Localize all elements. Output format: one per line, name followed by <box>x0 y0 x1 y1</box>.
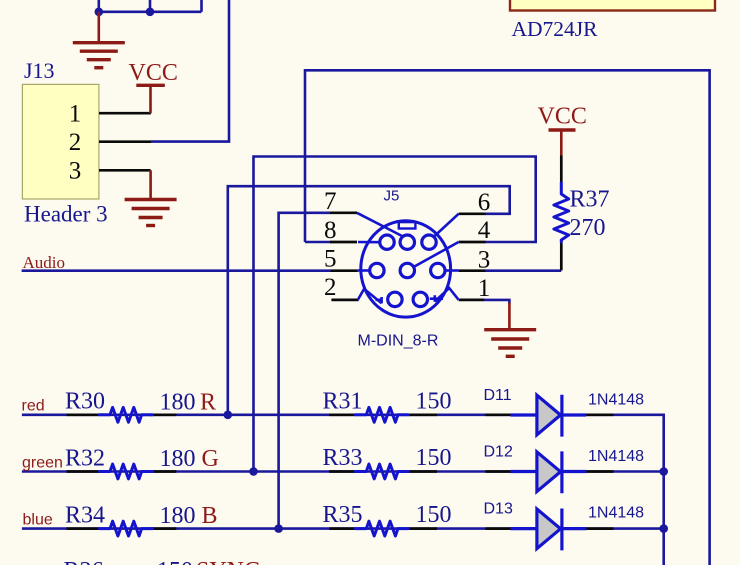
svg-text:M-DIN_8-R: M-DIN_8-R <box>358 333 439 350</box>
svg-text:R30: R30 <box>65 389 105 415</box>
svg-text:G: G <box>202 446 219 472</box>
svg-text:1N4148: 1N4148 <box>588 505 644 522</box>
svg-text:SYNC: SYNC <box>196 558 260 565</box>
svg-text:6: 6 <box>478 189 491 216</box>
svg-text:R37: R37 <box>570 187 610 213</box>
svg-text:Audio: Audio <box>23 253 66 272</box>
svg-text:3: 3 <box>478 246 491 273</box>
svg-text:180: 180 <box>160 446 196 472</box>
svg-text:R34: R34 <box>65 503 105 529</box>
svg-text:2: 2 <box>324 274 337 301</box>
svg-text:Header 3: Header 3 <box>24 202 108 227</box>
svg-text:blue: blue <box>23 511 53 528</box>
svg-text:D13: D13 <box>484 500 513 517</box>
svg-text:R: R <box>200 389 216 415</box>
svg-text:VCC: VCC <box>538 104 587 130</box>
svg-text:AD724JR: AD724JR <box>512 17 599 41</box>
svg-text:1N4148: 1N4148 <box>588 448 644 465</box>
svg-text:150: 150 <box>157 558 193 565</box>
svg-text:red: red <box>22 397 45 414</box>
svg-text:270: 270 <box>570 215 606 241</box>
svg-text:7: 7 <box>324 188 337 215</box>
svg-text:R33: R33 <box>323 445 363 471</box>
svg-text:B: B <box>202 503 218 529</box>
svg-text:1N4148: 1N4148 <box>588 391 644 408</box>
svg-text:4: 4 <box>478 217 491 244</box>
svg-text:VCC: VCC <box>129 60 178 86</box>
svg-text:1: 1 <box>69 101 82 128</box>
svg-text:180: 180 <box>160 389 196 415</box>
svg-text:1: 1 <box>478 275 491 302</box>
svg-text:R35: R35 <box>323 502 363 528</box>
svg-text:150: 150 <box>416 502 452 528</box>
svg-text:2: 2 <box>69 129 82 156</box>
svg-text:5: 5 <box>324 245 337 272</box>
svg-text:R32: R32 <box>65 445 105 471</box>
svg-text:180: 180 <box>160 503 196 529</box>
svg-text:3: 3 <box>69 158 82 185</box>
svg-text:R36: R36 <box>64 558 104 565</box>
svg-text:150: 150 <box>416 445 452 471</box>
svg-text:green: green <box>22 454 63 471</box>
svg-text:150: 150 <box>416 388 452 414</box>
svg-text:R31: R31 <box>323 388 363 414</box>
svg-text:J5: J5 <box>384 188 400 205</box>
svg-text:J13: J13 <box>24 58 55 83</box>
svg-text:D11: D11 <box>484 387 512 404</box>
svg-text:8: 8 <box>324 217 337 244</box>
svg-text:D12: D12 <box>484 444 513 461</box>
